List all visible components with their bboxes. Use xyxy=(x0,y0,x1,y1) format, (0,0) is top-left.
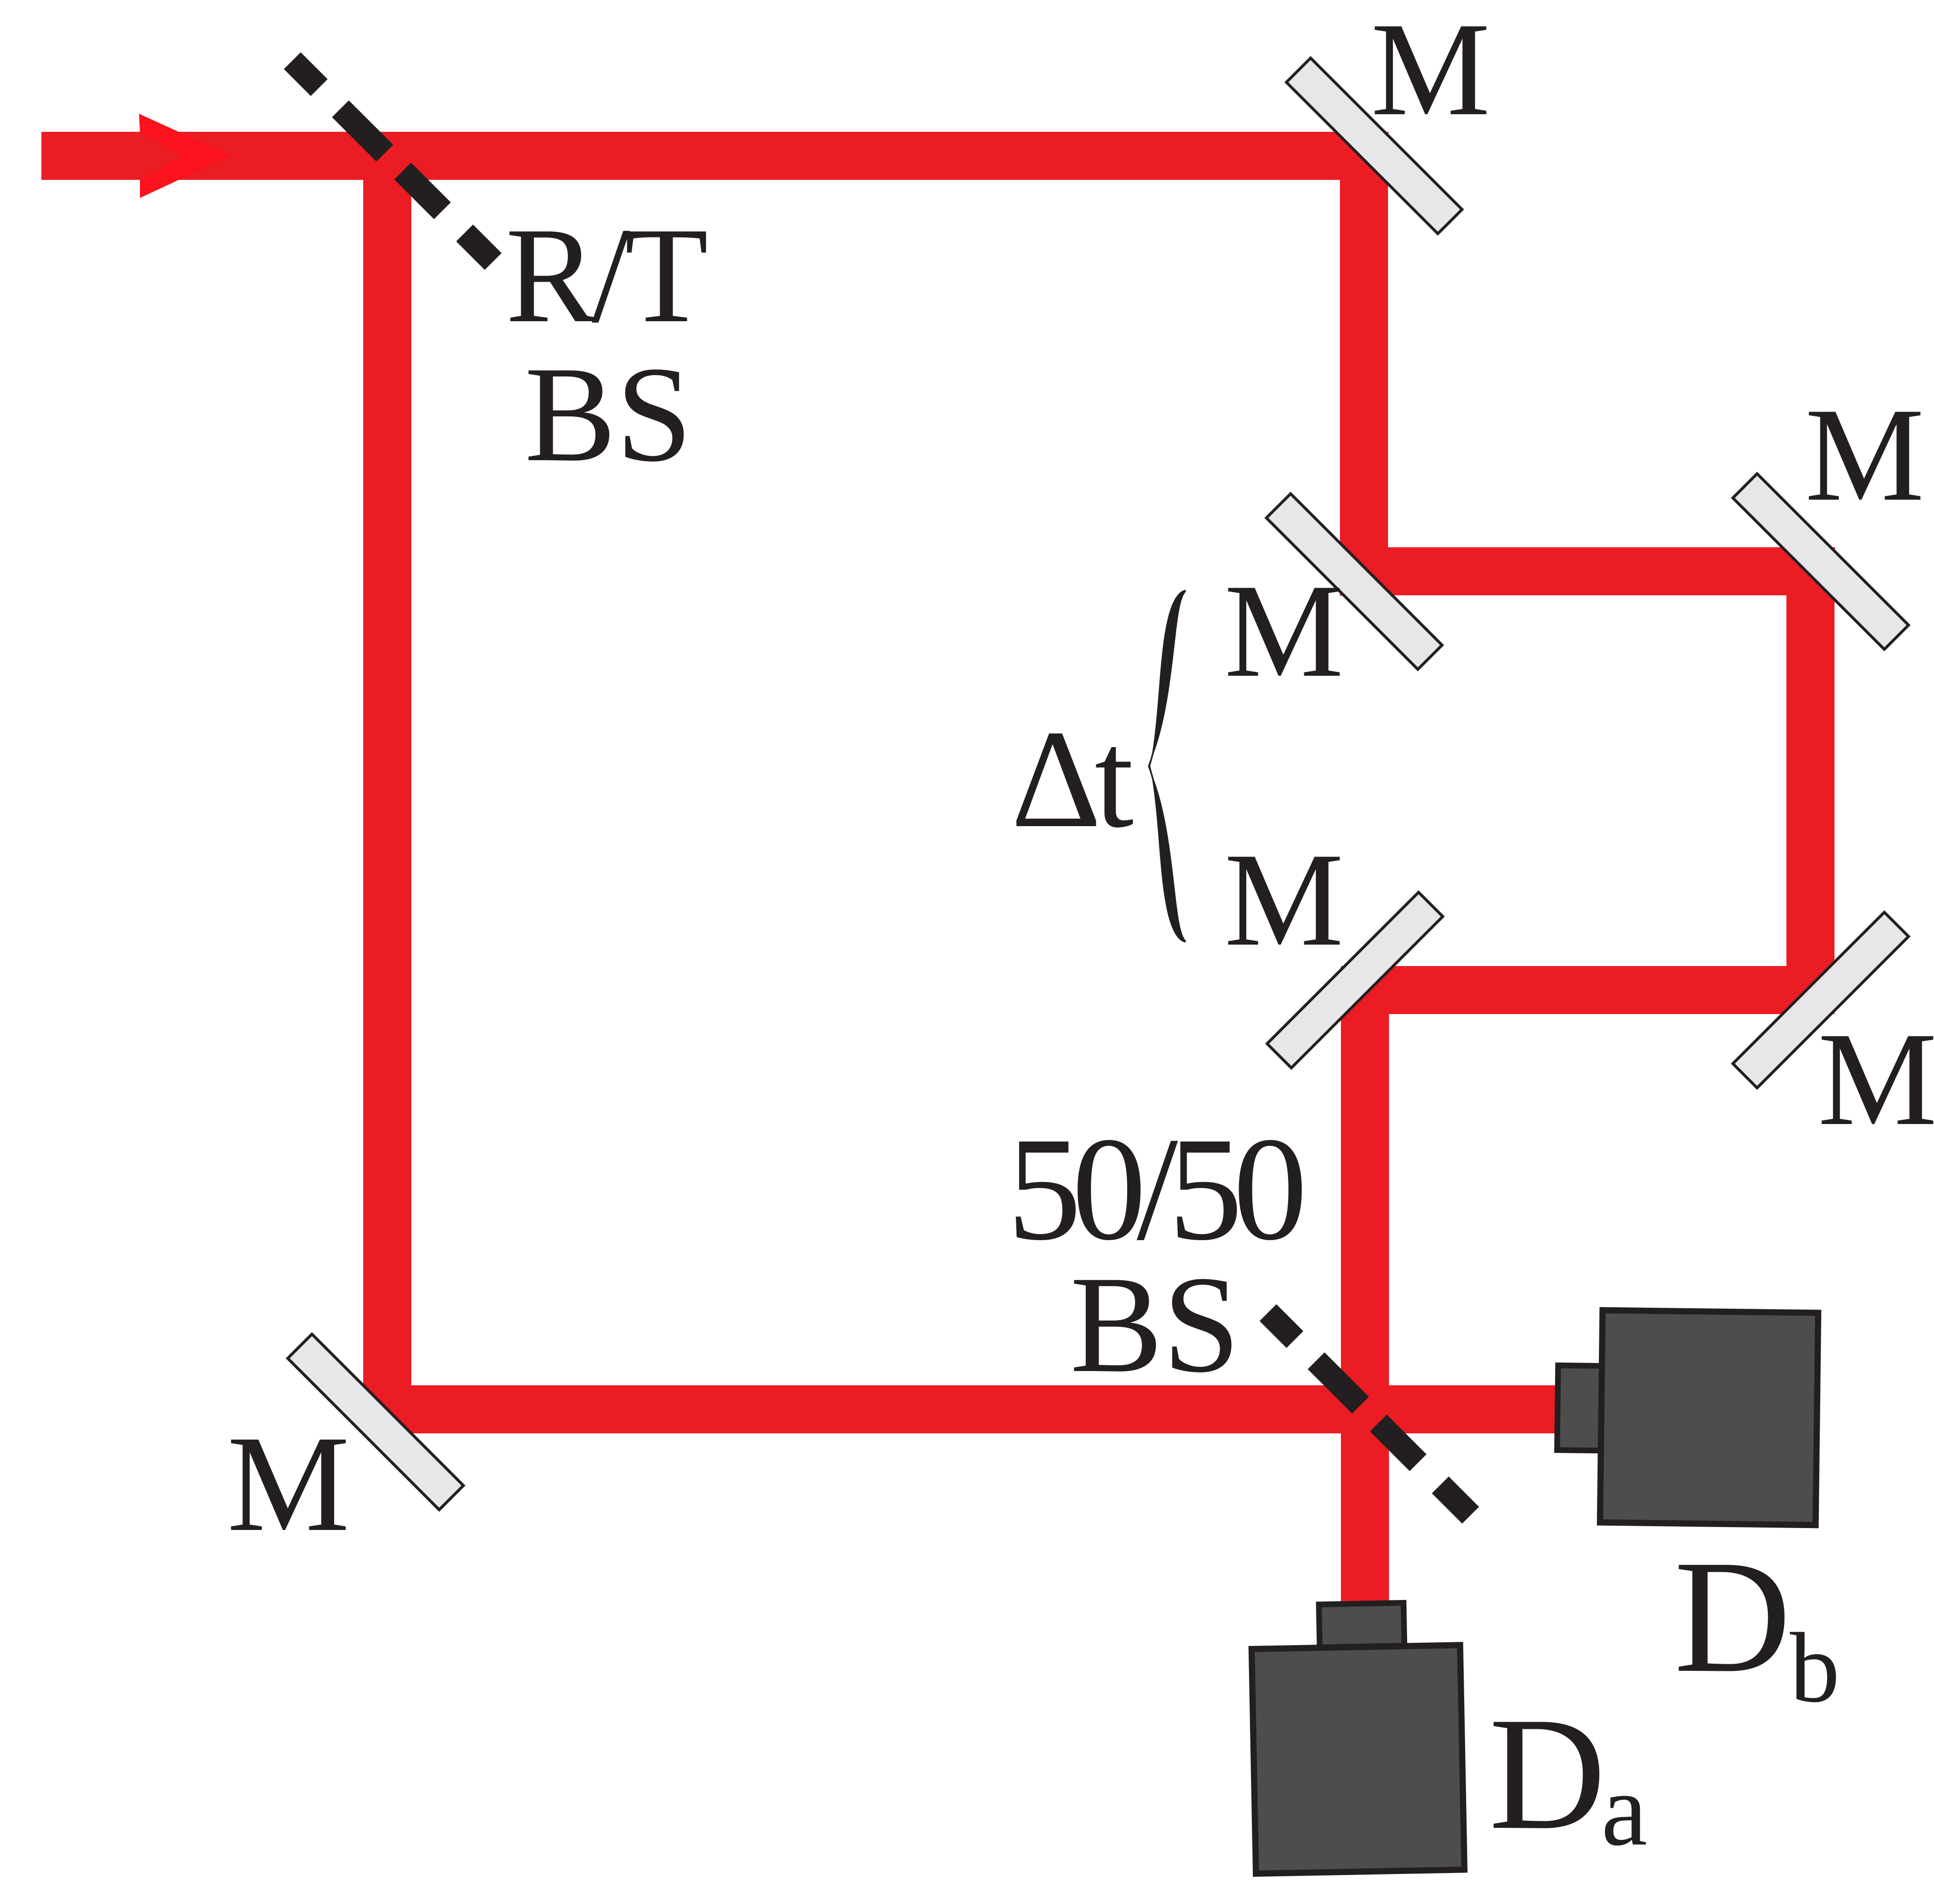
svg-text:a: a xyxy=(1601,1753,1647,1867)
brace for delta t xyxy=(1148,590,1186,942)
mirror M3 (right top) xyxy=(1733,474,1908,649)
svg-text:BS: BS xyxy=(525,338,692,490)
mirror M4 (right bottom) xyxy=(1733,912,1908,1088)
svg-text:D: D xyxy=(1674,1527,1791,1706)
svg-text:M: M xyxy=(1371,0,1490,143)
wire beam C (horizontal, M2 to M3) xyxy=(1340,547,1835,595)
detector Db xyxy=(1556,1310,1818,1525)
svg-text:Δt: Δt xyxy=(1011,701,1134,857)
svg-text:D: D xyxy=(1489,1684,1606,1863)
mirror M1 (top) xyxy=(1286,58,1462,234)
svg-text:BS: BS xyxy=(1070,1248,1240,1401)
wire beam D (vertical right, M3 to M4) xyxy=(1786,547,1835,1014)
mirror M5 (delay lower) xyxy=(1267,892,1443,1068)
detector Da xyxy=(1251,1602,1465,1874)
svg-text:R/T: R/T xyxy=(506,199,708,351)
wire beam E (horizontal, M4 to M5) xyxy=(1341,966,1835,1014)
wire input beam A (horizontal top) xyxy=(41,132,1389,180)
svg-text:M: M xyxy=(1818,1005,1934,1153)
wire beam G (vertical left, reflected from R/T BS) xyxy=(363,132,411,1433)
svg-text:b: b xyxy=(1790,1613,1840,1723)
wire beam F (vertical, M5 down through 50/50 BS to Da) xyxy=(1341,966,1389,1618)
svg-text:M: M xyxy=(227,1407,350,1560)
mirror M6 (bottom left) xyxy=(288,1334,463,1509)
wire beam H (horizontal bottom, M6 through 50/50 BS to Db) xyxy=(363,1385,1566,1433)
wire beam B (vertical, transmitted down from mirror M1) xyxy=(1340,132,1388,596)
svg-text:M: M xyxy=(1224,556,1344,705)
beam splitter 50/50 BS (dashed) xyxy=(1268,1312,1471,1515)
svg-text:50/50: 50/50 xyxy=(1007,1107,1303,1271)
mirror M2 (delay upper) xyxy=(1266,493,1442,669)
svg-text:M: M xyxy=(1224,825,1344,974)
input arrow head xyxy=(139,114,231,198)
beam splitter R/T BS (dashed) xyxy=(292,61,493,262)
svg-text:M: M xyxy=(1805,380,1924,529)
